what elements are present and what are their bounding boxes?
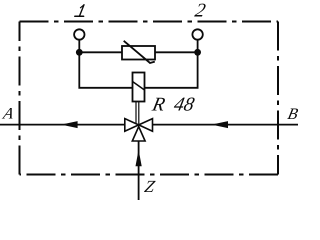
terminal circle 2 xyxy=(192,29,202,39)
port Z line xyxy=(138,141,140,200)
stem terminal 2 xyxy=(197,40,199,53)
terminal circle 1 xyxy=(74,29,84,39)
junction node 2 xyxy=(194,49,201,56)
enclosure dash-dot border xyxy=(20,22,279,175)
valve right triangle xyxy=(139,119,153,132)
svg-text:B: B xyxy=(286,106,299,123)
wire node1 to resistor xyxy=(79,51,122,53)
regulator diagonal xyxy=(133,82,145,91)
valve left triangle xyxy=(125,119,139,132)
adjustable resistor body xyxy=(122,46,155,60)
line B (right run) xyxy=(153,124,299,126)
wire node2 down to regulator xyxy=(145,52,198,88)
terminal label 1 xyxy=(75,5,84,16)
flow arrow left xyxy=(61,121,78,128)
svg-text:A: A xyxy=(1,106,15,123)
svg-text:2: 2 xyxy=(193,0,208,21)
flow arrow up Z xyxy=(136,150,142,167)
wire node1 down to regulator xyxy=(79,52,132,88)
wire resistor to node2 xyxy=(155,51,198,53)
valve bottom triangle xyxy=(132,127,145,141)
adjustable resistor slash xyxy=(124,41,155,63)
stem terminal 1 xyxy=(78,40,80,53)
svg-text:Z: Z xyxy=(143,177,157,196)
line A (left run) xyxy=(0,124,125,126)
regulator body xyxy=(133,73,145,102)
actuator double stem xyxy=(135,102,137,126)
svg-text:R 48: R 48 xyxy=(149,94,196,116)
junction node 1 xyxy=(76,49,83,56)
flow arrow right xyxy=(211,121,228,128)
